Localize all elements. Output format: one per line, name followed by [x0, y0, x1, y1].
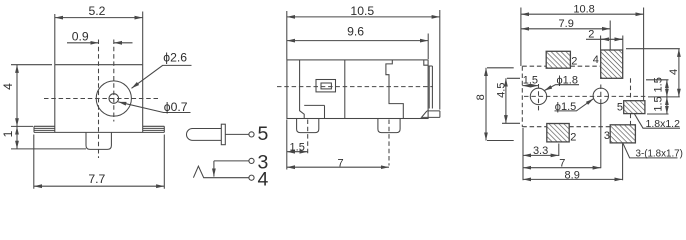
dimension 7.7: [34, 135, 165, 189]
dimension 3.3: [558, 144, 560, 157]
svg-text:4: 4: [1, 83, 15, 90]
svg-text:7.9: 7.9: [559, 18, 574, 30]
svg-text:2: 2: [588, 28, 594, 40]
dimension 7 middle: [287, 166, 389, 168]
svg-text:1.8x1.2: 1.8x1.2: [646, 118, 681, 130]
dimension 1.5 lower right: [647, 113, 669, 115]
dimension 8: [487, 68, 514, 141]
svg-text:7: 7: [559, 157, 565, 169]
left leg: [297, 119, 319, 133]
svg-text:2: 2: [570, 131, 576, 143]
svg-text:7: 7: [338, 157, 344, 169]
small circle phi0.7: [109, 94, 119, 104]
svg-text:0.9: 0.9: [72, 29, 89, 43]
svg-text:4: 4: [668, 69, 680, 75]
leader phi1.5: [555, 99, 594, 111]
pin 3 terminal circle: [249, 158, 254, 163]
svg-text:ϕ1.5: ϕ1.5: [555, 101, 576, 113]
pin 5 terminal circle: [249, 132, 254, 137]
footprint horizontal centerline: [524, 95, 648, 97]
dimension 1 left: [11, 148, 86, 150]
svg-text:1.5: 1.5: [523, 75, 538, 87]
left view base bottom line: [34, 131, 164, 133]
right flange wing: [143, 126, 165, 132]
right step profile: [386, 60, 403, 119]
dimension 2 top: [601, 36, 623, 50]
right side strip: [428, 66, 432, 109]
pad 3 bottom-right: [610, 125, 635, 143]
pin 3 lead: [214, 160, 249, 162]
svg-text:8: 8: [475, 94, 487, 100]
middle horizontal centerline: [277, 86, 433, 88]
platform above left leg: [304, 105, 324, 118]
dimension 1.5 top-left: [522, 85, 538, 87]
svg-text:4.5: 4.5: [496, 83, 508, 98]
hole phi1.8: [530, 88, 546, 104]
svg-text:10.8: 10.8: [573, 4, 594, 16]
leader 1.8x1.2: [634, 114, 680, 128]
leader phi1.8: [544, 85, 579, 91]
right leg: [378, 119, 400, 133]
dimension 7 bottom: [600, 104, 602, 168]
svg-text:3-(1.8x1.7): 3-(1.8x1.7): [636, 148, 683, 159]
peg centerline: [98, 40, 100, 159]
dimension 4 right: [626, 49, 680, 97]
left flange wing: [34, 126, 55, 132]
svg-text:4: 4: [258, 168, 269, 190]
svg-text:10.5: 10.5: [350, 4, 374, 18]
dimension 4.5: [502, 78, 520, 123]
pad 4 top-right: [601, 50, 623, 78]
main divider: [344, 60, 346, 119]
side pin: [422, 111, 440, 118]
dimension 1.5 upper right: [646, 79, 669, 81]
switch contact: [193, 166, 249, 178]
horizontal centerline: [44, 98, 161, 100]
inner window inner: [321, 83, 331, 89]
top right notch: [424, 60, 428, 65]
dashed outline left: [521, 66, 523, 127]
dimension 9.6: [427, 34, 429, 60]
plug flange: [221, 124, 225, 145]
dashed outline top: [522, 65, 600, 67]
svg-text:1.5: 1.5: [653, 77, 665, 92]
hole phi1.8 centerline: [538, 84, 540, 113]
svg-text:3.3: 3.3: [533, 145, 548, 157]
svg-text:2: 2: [571, 55, 577, 67]
dimension 0.9: [67, 42, 99, 44]
left divider: [300, 60, 305, 119]
vertical centerline: [113, 40, 115, 122]
plug barrel: [187, 128, 222, 140]
leader phi0.7: [118, 102, 190, 113]
middle body outline: [287, 60, 428, 119]
switch drop wire: [213, 161, 215, 177]
svg-text:1.5: 1.5: [652, 96, 664, 111]
leader phi2.6: [132, 65, 192, 88]
pin 5 lead: [225, 133, 249, 135]
dimension 4 left: [11, 65, 52, 127]
svg-text:1.5: 1.5: [290, 141, 305, 153]
hole phi1.5: [593, 88, 608, 103]
dimension 10.5: [287, 10, 440, 110]
svg-text:5.2: 5.2: [89, 4, 106, 18]
pin 4 terminal circle: [249, 175, 254, 180]
svg-text:9.6: 9.6: [347, 25, 364, 39]
svg-text:1: 1: [1, 130, 15, 137]
left leg centerline: [307, 120, 309, 154]
pad 2 top-left: [546, 51, 570, 68]
pad 5 right: [624, 101, 645, 114]
dimension 10.8: [521, 8, 644, 101]
dashed outline right: [630, 78, 632, 126]
svg-text:ϕ1.8: ϕ1.8: [557, 74, 578, 86]
hole phi1.5 centerline: [600, 85, 602, 107]
dashed outline bottom: [522, 126, 610, 128]
svg-text:5: 5: [617, 102, 623, 114]
svg-text:8.9: 8.9: [565, 169, 580, 181]
right leg centerline: [388, 120, 390, 166]
big circle phi2.6: [96, 81, 131, 116]
dimension 7.9: [609, 21, 611, 51]
inner window outer: [316, 80, 336, 92]
svg-text:5: 5: [258, 123, 269, 145]
svg-text:ϕ2.6: ϕ2.6: [163, 50, 187, 64]
mounting peg: [86, 132, 111, 149]
dimension 1.5 middle: [286, 120, 288, 170]
dimension 8.9: [523, 128, 623, 180]
left view body: [55, 65, 143, 133]
dimension 5.2: [55, 12, 143, 65]
svg-text:7.7: 7.7: [88, 172, 105, 186]
pad 2 bottom-left: [547, 124, 569, 142]
svg-text:3: 3: [604, 130, 610, 142]
svg-text:4: 4: [593, 54, 599, 66]
svg-text:ϕ0.7: ϕ0.7: [164, 100, 188, 114]
leader 3-(1.8x1.7): [623, 143, 678, 158]
